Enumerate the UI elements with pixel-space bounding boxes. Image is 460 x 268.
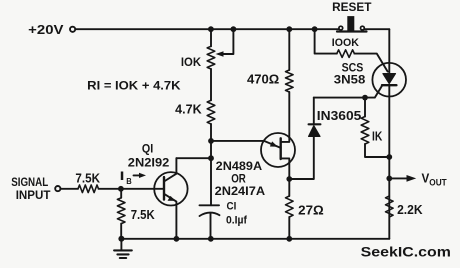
svg-text:2N2I92: 2N2I92	[128, 155, 170, 169]
svg-text:7.5K: 7.5K	[131, 208, 155, 222]
node rail / C1	[208, 236, 214, 242]
unijunction transistor Q2 circle	[261, 133, 295, 167]
wire 100K right lead to SCS anode-gate	[354, 54, 387, 72]
Q2 emitter arrowhead	[270, 141, 278, 146]
Vout arrowhead	[407, 175, 417, 182]
pushbutton RESET cap	[347, 16, 354, 31]
svg-text:IOK: IOK	[181, 55, 202, 69]
node rail / Q1 emitter	[174, 236, 180, 242]
wire pot wiper	[222, 29, 233, 54]
Q1 emitter	[164, 194, 176, 239]
wiper arrowhead	[216, 51, 224, 57]
wire 10K top lead	[210, 29, 212, 46]
resistor 27 ohm	[286, 196, 294, 217]
svg-text:QI: QI	[142, 142, 153, 155]
svg-text:B: B	[126, 176, 132, 186]
capacitor C1 bottom plate (curved)	[200, 213, 220, 216]
node B1/27ohm/diode junction	[286, 176, 292, 182]
pushbutton RESET right terminal	[361, 26, 365, 30]
node B (collector junction)	[208, 155, 214, 161]
wire between 10K and 4.7K	[210, 69, 212, 100]
wire diode branch horizontal	[289, 136, 314, 179]
svg-text:SeekIC.com: SeekIC.com	[361, 245, 451, 261]
capacitor C1 top plate	[200, 204, 220, 206]
I_B arrow	[134, 174, 140, 176]
diode 1N3605 triangle	[309, 126, 320, 137]
wire Q1 base	[121, 188, 164, 190]
wire 100K left stub	[315, 29, 337, 53]
wire SCS anode from button	[388, 29, 390, 74]
node top rail / 470 ohm	[286, 26, 292, 32]
node top rail / pot wiper	[231, 26, 237, 32]
wire input to 7.5K	[61, 188, 78, 190]
svg-text:IOOK: IOOK	[332, 37, 359, 49]
wire bottom rail	[121, 238, 389, 240]
transistor Q1 circle	[154, 172, 187, 205]
resistor 470 ohm	[286, 70, 294, 92]
svg-text:SIGNAL: SIGNAL	[11, 176, 48, 189]
wire top rail left of button	[76, 28, 339, 30]
svg-text:INPUT: INPUT	[16, 189, 52, 202]
Q1 collector	[164, 158, 176, 181]
wire Q2 base-2 to 470 ohm	[281, 92, 290, 142]
SCS cathode bar	[382, 84, 396, 86]
resistor 100K	[337, 50, 355, 58]
Q1 base bar	[163, 177, 165, 200]
pushbutton RESET left terminal	[339, 26, 343, 30]
wire Q2 base-1 to node	[281, 158, 290, 179]
wire Vout arrow shaft	[389, 177, 407, 179]
svg-text:I: I	[120, 171, 125, 183]
node A (emitter junction)	[208, 138, 214, 144]
svg-text:7.5K: 7.5K	[75, 171, 100, 185]
node gate / 1K	[362, 95, 368, 101]
wire 1K bottom lead to cathode	[365, 144, 389, 157]
wire diode cathode to gate line	[313, 98, 315, 125]
node rail / divider ground	[118, 236, 124, 242]
resistor 1K	[361, 117, 369, 145]
svg-text:+20V: +20V	[28, 23, 64, 37]
svg-text:OUT: OUT	[429, 178, 447, 188]
SCS thyristor triangle	[383, 74, 396, 84]
svg-text:4.7K: 4.7K	[175, 103, 202, 117]
wire divider top lead	[120, 189, 122, 198]
wire SCS cathode down	[388, 85, 390, 239]
svg-text:3N58: 3N58	[334, 73, 366, 87]
wire Q1 collector to node B	[176, 157, 211, 159]
terminal +20V	[70, 27, 75, 32]
wire 7.5K to base node	[99, 188, 122, 190]
terminal SIGNAL INPUT	[55, 186, 60, 191]
wire 27 ohm bottom lead	[288, 217, 290, 239]
resistor 7.5K shunt	[117, 198, 125, 224]
wire top rail right of button	[365, 28, 390, 30]
node top rail / 100K branch	[312, 26, 318, 32]
svg-text:RESET: RESET	[332, 2, 371, 14]
pushbutton RESET contact bar	[337, 30, 367, 32]
scan artifact bottom	[18, 263, 445, 265]
svg-text:0.Iµf: 0.Iµf	[226, 215, 247, 227]
svg-text:RI = IOK + 4.7K: RI = IOK + 4.7K	[87, 79, 181, 92]
resistor 7.5K series	[78, 185, 99, 193]
svg-text:2N489A: 2N489A	[216, 159, 263, 173]
node base / divider	[118, 186, 124, 192]
resistor 2.2K	[386, 196, 394, 217]
wire C1 to bottom rail	[210, 214, 212, 239]
SCS 3N58 circle	[372, 63, 406, 97]
svg-text:IK: IK	[372, 128, 383, 143]
svg-text:IN3605: IN3605	[317, 109, 362, 123]
wire SCS cathode-gate line	[314, 85, 383, 97]
wire 470 top lead	[288, 29, 290, 70]
Q2 base bar	[280, 138, 282, 159]
svg-text:2N24I7A: 2N24I7A	[215, 184, 266, 198]
wire 27 ohm top lead	[288, 179, 290, 196]
svg-text:470Ω: 470Ω	[247, 72, 279, 87]
node Vout	[386, 176, 392, 182]
wire node A to node B to C1	[210, 141, 212, 205]
svg-text:CI: CI	[227, 200, 237, 212]
ground	[120, 239, 122, 251]
node cathode / 1K	[386, 154, 392, 160]
node rail / 27 ohm	[286, 236, 292, 242]
resistor 4.7K	[207, 100, 215, 124]
potentiometer 10K	[207, 46, 215, 69]
wire 1K top lead	[364, 98, 366, 117]
svg-text:27Ω: 27Ω	[298, 204, 324, 218]
diode 1N3605 cathode bar	[309, 123, 321, 125]
wire divider bottom lead	[120, 224, 122, 239]
wire Q2 emitter from node A	[211, 141, 281, 148]
Q1 emitter arrowhead	[168, 196, 176, 201]
svg-text:2.2K: 2.2K	[397, 203, 423, 217]
wire 4.7K to node A	[210, 124, 212, 141]
node top rail / 10K pot	[208, 26, 214, 32]
